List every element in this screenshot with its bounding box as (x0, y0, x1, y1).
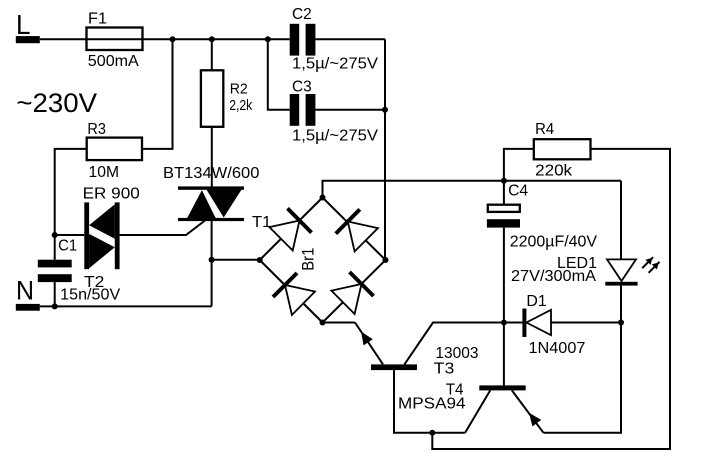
wire C2 right (315, 38, 385, 40)
node LED D1 junction (618, 320, 624, 326)
fuse F1 (87, 28, 143, 51)
wire C3 right (315, 109, 385, 111)
resistor R3 (87, 138, 142, 161)
node bridge bottom (320, 320, 326, 326)
svg-text:27V/300mA: 27V/300mA (511, 268, 596, 285)
svg-text:15n/50V: 15n/50V (60, 287, 120, 304)
wire top junction down to C3 (268, 39, 290, 110)
node junction F1-R3 (170, 36, 176, 42)
transistor T4 (465, 323, 543, 433)
transistor T3 (355, 323, 417, 371)
resistor R4 (534, 139, 591, 159)
svg-text:2200µF/40V: 2200µF/40V (510, 234, 598, 251)
wire R3 right to top wire (142, 39, 173, 149)
svg-text:C2: C2 (292, 6, 312, 23)
resistor R2 (201, 70, 223, 127)
svg-text:500mA: 500mA (88, 53, 139, 70)
capacitor C4 (487, 181, 520, 323)
node bridge left (257, 257, 263, 263)
svg-text:T1: T1 (252, 214, 271, 231)
wire R4 right outer loop (432, 149, 670, 449)
svg-text:13003: 13003 (435, 345, 478, 362)
wire right vertical to bridge (384, 39, 386, 260)
wire T4 emitter to LED node (544, 323, 622, 433)
svg-text:2,2k: 2,2k (229, 97, 253, 114)
svg-text:~230V: ~230V (16, 88, 97, 118)
wire triac bottom lead (211, 221, 213, 260)
svg-text:N: N (16, 276, 34, 306)
node T3 T4 junction (429, 430, 435, 436)
node bridge top (320, 195, 326, 201)
bridge diode upper-right (336, 209, 378, 251)
wire N to triac branch (40, 305, 212, 307)
wire D1 to LED node (551, 322, 621, 324)
wire L to C2 (40, 38, 290, 40)
svg-text:1N4007: 1N4007 (529, 340, 586, 357)
node C4 D1 T3 junction (501, 320, 507, 326)
svg-text:Br1: Br1 (299, 248, 318, 271)
svg-text:MPSA94: MPSA94 (398, 396, 466, 413)
node junction top R2 (209, 36, 215, 42)
node junction top C3 (265, 36, 271, 42)
svg-text:R2: R2 (230, 81, 248, 98)
wire T4 collector (432, 432, 465, 434)
capacitor C2 (290, 24, 316, 56)
svg-text:L: L (16, 9, 31, 40)
triac T1 (178, 186, 244, 221)
node triac bottom (209, 257, 215, 263)
svg-text:C3: C3 (292, 78, 312, 95)
wire LED to D1 node (620, 286, 622, 323)
bridge diode upper-left (269, 208, 311, 250)
node R4 C4 junction (501, 178, 507, 184)
wire R3 left down to diac node (55, 149, 87, 235)
wire R2 to triac (211, 127, 213, 187)
wire junction up to R4 (504, 149, 534, 181)
svg-text:C4: C4 (508, 182, 528, 199)
wire bridge bottom to T3 emitter (323, 322, 356, 324)
terminal L (16, 9, 40, 43)
wire T3 base (394, 370, 432, 433)
wire rail down to LED (620, 181, 622, 260)
bridge Br1 arms (260, 198, 386, 323)
capacitor C3 (290, 94, 316, 126)
bridge diode lower-right (331, 272, 373, 314)
svg-text:D1: D1 (526, 293, 546, 310)
svg-text:C1: C1 (58, 237, 77, 254)
node bridge right (383, 257, 389, 263)
wire C4 node to D1 (504, 322, 523, 324)
node diac C1 junction (52, 232, 58, 238)
svg-text:220k: 220k (535, 162, 573, 179)
svg-text:F1: F1 (88, 11, 107, 28)
svg-text:R4: R4 (535, 121, 554, 138)
capacitor C1 (38, 235, 72, 306)
bridge diode lower-left (273, 273, 315, 315)
svg-text:1,5µ/~275V: 1,5µ/~275V (292, 128, 378, 145)
svg-text:1,5µ/~275V: 1,5µ/~275V (292, 56, 378, 73)
wire N branch up to triac node (211, 260, 213, 307)
node C3 right (382, 107, 388, 113)
svg-text:T3: T3 (434, 360, 455, 377)
wire diac to triac gate (120, 221, 205, 236)
svg-text:10M: 10M (89, 164, 120, 181)
LED light arrows (642, 257, 659, 273)
wire bridge top to DC plus rail (323, 181, 622, 198)
terminal N (16, 276, 40, 311)
node N junction (52, 303, 58, 309)
wire T3 collector (404, 323, 504, 365)
wire node to diac (55, 234, 85, 236)
diode D1 (522, 309, 551, 338)
svg-text:ER 900: ER 900 (83, 185, 140, 202)
wire top to R2 (211, 39, 213, 70)
diac T2 ER900 (84, 202, 119, 269)
wire triac node to bridge left (212, 259, 260, 261)
LED LED1 (605, 259, 637, 285)
svg-text:R3: R3 (87, 121, 106, 138)
